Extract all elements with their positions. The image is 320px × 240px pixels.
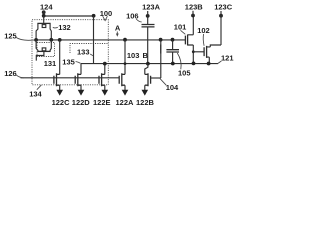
ground 122D	[78, 90, 85, 96]
ground 122A	[122, 90, 129, 96]
wire bottom bus	[81, 63, 218, 65]
gate wire from 126	[21, 77, 120, 79]
wire T3 column	[104, 64, 106, 91]
wire 104 gate riser	[160, 40, 162, 78]
junction	[171, 62, 175, 66]
svg-text:125: 125	[4, 32, 17, 41]
wire T2 column	[80, 64, 82, 91]
svg-text:105: 105	[178, 68, 191, 77]
arrow A	[116, 32, 118, 36]
transistor 132	[43, 16, 45, 23]
transistor 102	[204, 46, 207, 58]
svg-text:131: 131	[44, 59, 57, 68]
leader 102	[202, 34, 205, 46]
junction gate tap	[192, 50, 195, 53]
svg-text:102: 102	[197, 26, 210, 35]
junction	[124, 62, 127, 65]
wire node B column	[147, 27, 149, 63]
leader 105	[177, 53, 181, 69]
dashed box 131	[37, 43, 55, 57]
svg-text:135: 135	[62, 58, 75, 67]
svg-text:133: 133	[77, 48, 90, 57]
transistor T1	[54, 73, 60, 86]
dashed box 133	[70, 44, 108, 54]
leader 134	[37, 85, 42, 90]
junction rail left	[42, 14, 46, 18]
capacitor 106	[142, 25, 155, 27]
junction	[58, 38, 62, 42]
leader 104	[160, 79, 166, 86]
junction	[171, 38, 175, 42]
transistor 104	[145, 73, 151, 86]
junction	[192, 62, 196, 66]
junction	[146, 62, 150, 66]
svg-text:B: B	[143, 51, 149, 60]
svg-text:134: 134	[29, 90, 42, 99]
dashed box 100	[32, 20, 108, 85]
svg-text:132: 132	[58, 23, 71, 32]
transistor 101	[185, 35, 187, 46]
svg-text:126: 126	[4, 69, 17, 78]
wire 123C	[220, 11, 222, 45]
terminal 123C	[219, 14, 223, 18]
leader 106	[136, 19, 142, 22]
svg-text:103: 103	[127, 51, 140, 60]
terminal 123A	[146, 14, 150, 18]
wire 131 gate	[36, 51, 44, 60]
wire 123A	[147, 11, 149, 24]
junction rail right	[92, 14, 96, 18]
svg-text:123C: 123C	[214, 2, 233, 11]
svg-text:122E: 122E	[93, 98, 111, 107]
gate wire 104	[151, 77, 161, 79]
svg-text:122B: 122B	[136, 98, 155, 107]
leader 126	[16, 75, 24, 78]
ground 122C	[56, 90, 63, 96]
wire 124 stub	[43, 10, 45, 16]
svg-text:A: A	[115, 24, 121, 33]
svg-text:123B: 123B	[185, 2, 204, 11]
transistor T3	[99, 73, 105, 86]
junction	[159, 38, 163, 42]
ground 122B	[142, 90, 149, 96]
wire 102 gate tap	[193, 51, 204, 53]
wire node A column	[124, 40, 126, 91]
leader 101	[181, 30, 186, 34]
wire thick segment	[160, 45, 162, 54]
transistor 103	[119, 73, 125, 86]
svg-text:122A: 122A	[116, 98, 135, 107]
leader 132	[53, 26, 58, 29]
svg-text:101: 101	[174, 23, 187, 32]
ground 122E	[102, 90, 109, 96]
leader 135	[76, 62, 81, 64]
terminal 123B	[191, 14, 195, 18]
top rail	[44, 15, 94, 17]
leader arrow 100	[103, 16, 108, 20]
svg-text:104: 104	[166, 83, 179, 92]
leader 125	[16, 37, 35, 40]
svg-text:123A: 123A	[142, 2, 161, 11]
bus node A line	[36, 39, 185, 41]
transistor T2	[75, 73, 81, 86]
junction	[34, 38, 38, 42]
svg-text:100: 100	[100, 9, 113, 18]
junction	[103, 62, 107, 66]
leader 121	[218, 61, 222, 64]
wire 104 drain jog	[145, 64, 148, 91]
terminal 124	[42, 10, 46, 14]
junction	[49, 38, 53, 42]
svg-text:121: 121	[221, 53, 234, 62]
wire 133 vertical	[93, 16, 95, 64]
transistor 131	[36, 40, 38, 52]
svg-text:124: 124	[40, 3, 53, 12]
junction node A	[123, 38, 127, 42]
svg-text:122D: 122D	[72, 98, 91, 107]
capacitor 105	[172, 40, 174, 64]
wire T1 column	[59, 40, 61, 91]
leader 133	[90, 54, 93, 56]
svg-text:122C: 122C	[52, 98, 71, 107]
junction	[207, 62, 211, 66]
